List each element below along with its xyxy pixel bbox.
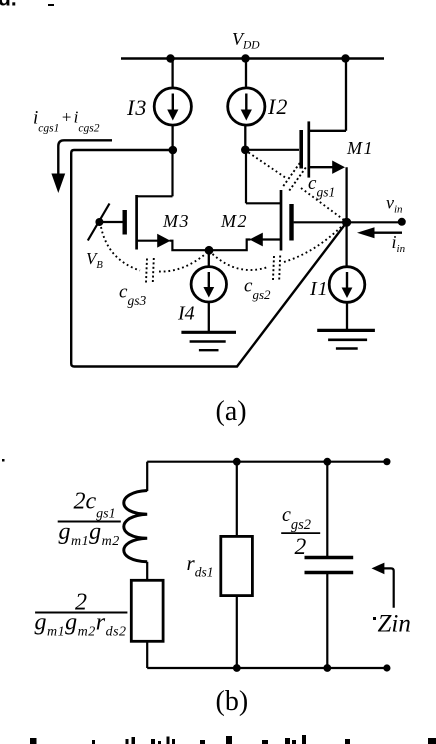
- node rail-I3: [166, 54, 174, 62]
- wire left bottom: [146, 641, 148, 668]
- transistor M1: [245, 59, 346, 178]
- svg-text:Zin: Zin: [378, 611, 411, 638]
- svg-text:M 1: M 1: [346, 138, 373, 158]
- wire I4 bottom: [208, 302, 210, 332]
- node VDD: [241, 54, 249, 62]
- svg-text:2: 2: [295, 534, 307, 560]
- svg-text:cgs1: cgs1: [308, 173, 335, 200]
- svg-text:I2: I2: [267, 94, 288, 119]
- wire VDD rail: [121, 57, 384, 60]
- terminal vin: [398, 218, 406, 226]
- node B (I2/M2 drain/M1 gate): [241, 146, 250, 155]
- node A (I3/M3 drain/feedback): [169, 146, 178, 155]
- node bottom-rds1: [233, 664, 241, 672]
- wire I3 bottom: [171, 125, 173, 150]
- node top-cap: [323, 458, 331, 466]
- wire cap bottom: [326, 573, 328, 668]
- ground (below I4): [181, 332, 236, 350]
- current source I2: [228, 88, 265, 125]
- svg-text:I4: I4: [177, 303, 195, 325]
- wire I3 top: [171, 59, 173, 90]
- wire I1 bottom: [346, 302, 348, 330]
- terminal VB (gate bias): [88, 204, 110, 241]
- svg-text:VDD: VDD: [232, 29, 260, 52]
- svg-text:rds1: rds1: [187, 551, 214, 580]
- svg-text:cgs2: cgs2: [244, 276, 271, 303]
- svg-text:I1: I1: [309, 278, 329, 300]
- current arrow iin: [357, 227, 402, 238]
- svg-text:gm1gm2: gm1gm2: [59, 519, 120, 549]
- svg-text:M 3: M 3: [162, 211, 189, 231]
- node rail-M1: [341, 54, 349, 62]
- wire I2 top: [245, 59, 247, 90]
- svg-text:VB: VB: [86, 249, 103, 271]
- page caption fragment (cut off at bottom edge): [30, 735, 436, 744]
- current source I4: [191, 267, 226, 302]
- current source I1: [329, 267, 365, 303]
- wire left top: [146, 462, 148, 491]
- svg-text:icgs1 + icgs2: icgs1 + icgs2: [33, 108, 100, 135]
- svg-text:M 2: M 2: [220, 211, 247, 231]
- stray scan speck: [2, 459, 5, 462]
- ground (below I1): [317, 330, 375, 348]
- terminal bottom right: [383, 664, 390, 671]
- capacitor cgs1 (parasitic, dotted): [249, 153, 345, 221]
- wire feedback loop (node A - left - bottom - diagonal to input node): [71, 150, 346, 367]
- transistor M2: [209, 150, 347, 251]
- svg-text:iin: iin: [392, 232, 406, 255]
- inductor L (2cgs1/gm1gm2): [124, 491, 147, 562]
- label Zin: [373, 611, 411, 638]
- resistor rds1 (box): [221, 536, 253, 595]
- node top-rds1: [233, 458, 241, 466]
- svg-text:cgs3: cgs3: [119, 282, 146, 309]
- svg-text:2cgs1: 2cgs1: [74, 489, 116, 522]
- capacitor cgs2/2: [305, 558, 354, 573]
- wire cap top: [326, 462, 328, 556]
- capacitor cgs2 (parasitic, dotted): [213, 225, 344, 281]
- resistor 2/gm1gm2rds2 (box): [131, 580, 163, 641]
- wire rds1 bottom: [236, 596, 238, 668]
- svg-text:(b): (b): [216, 686, 249, 717]
- label 2cgs1/gm1gm2 fraction: [58, 489, 121, 550]
- svg-text:vin: vin: [386, 193, 403, 216]
- wire rds1 top: [236, 462, 238, 537]
- current source I3: [154, 88, 191, 125]
- svg-text:I3: I3: [126, 95, 147, 120]
- stray dash mark: [48, 4, 54, 6]
- svg-text:cgs2: cgs2: [282, 504, 311, 533]
- arrow Zin (input impedance): [372, 563, 394, 608]
- transistor M3: [101, 150, 209, 250]
- wire bottom: [147, 667, 387, 669]
- node vin: [342, 218, 351, 227]
- terminal top right: [383, 458, 390, 465]
- current direction arrow icgs1+icgs2: [51, 140, 112, 193]
- wire I4 top: [208, 250, 210, 267]
- node bottom-cap: [323, 664, 331, 672]
- wire top: [147, 461, 387, 463]
- page fragment top-left "d.": [0, 0, 17, 11]
- capacitor cgs3 (parasitic, dotted): [101, 227, 206, 283]
- wire I2 bottom: [244, 125, 246, 150]
- label cgs2/2 fraction: [281, 504, 320, 560]
- wire coil to resistor: [146, 562, 148, 581]
- svg-text:d.: d.: [0, 0, 17, 11]
- wire M1 source to I1 (input column): [345, 167, 347, 267]
- wire input stub: [347, 221, 401, 223]
- node C (M3/M2 sources, I4): [205, 246, 214, 255]
- svg-text:(a): (a): [216, 396, 247, 427]
- label 2/gm1gm2rds2 fraction: [35, 590, 128, 640]
